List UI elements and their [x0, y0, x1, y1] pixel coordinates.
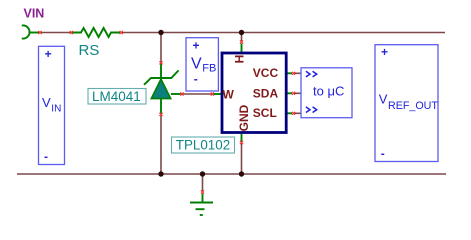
svg-text:IN: IN	[51, 104, 61, 115]
svg-text:+: +	[45, 47, 52, 61]
svg-text:GND: GND	[237, 104, 251, 131]
svg-text:LM4041: LM4041	[92, 89, 141, 104]
svg-text:RS: RS	[79, 42, 100, 59]
svg-text:+: +	[193, 39, 200, 53]
svg-text:-: -	[381, 146, 385, 160]
svg-text:VIN: VIN	[24, 7, 45, 21]
svg-text:H: H	[233, 55, 247, 64]
svg-text:TPL0102: TPL0102	[176, 138, 230, 153]
svg-text:to μC: to μC	[313, 84, 344, 99]
svg-text:SDA: SDA	[253, 86, 279, 100]
svg-text:+: +	[381, 45, 388, 59]
svg-text:V: V	[191, 56, 202, 73]
svg-text:V: V	[379, 92, 388, 107]
svg-text:REF_OUT: REF_OUT	[388, 100, 438, 112]
svg-text:SCL: SCL	[253, 106, 277, 120]
svg-text:VCC: VCC	[253, 66, 279, 80]
svg-text:FB: FB	[202, 63, 216, 75]
svg-text:V: V	[42, 95, 51, 110]
svg-text:-: -	[44, 150, 48, 164]
svg-text:W: W	[223, 88, 235, 102]
svg-text:-: -	[194, 72, 198, 86]
